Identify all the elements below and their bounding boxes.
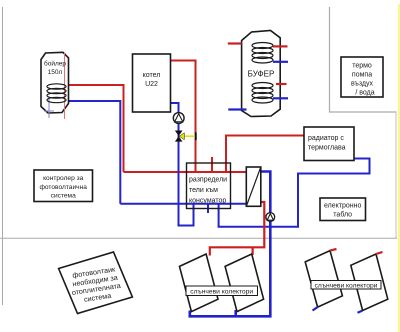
svg-text:помпа: помпа bbox=[352, 72, 372, 79]
svg-text:котел: котел bbox=[143, 72, 161, 79]
svg-text:слънчеви колектори: слънчеви колектори bbox=[190, 288, 253, 295]
label collectors right bbox=[311, 281, 381, 290]
wire blue boiler return bbox=[64, 101, 120, 204]
svg-text:слънчеви колектори: слънчеви колектори bbox=[315, 282, 378, 289]
buffer stub blue right2 bbox=[273, 97, 288, 99]
svg-text:контролер за: контролер за bbox=[43, 175, 84, 182]
wire red kotel supply bbox=[171, 61, 196, 173]
electric panel box bbox=[320, 198, 366, 221]
wire red solar return bbox=[210, 202, 264, 256]
svg-text:БУФЕР: БУФЕР bbox=[248, 70, 275, 79]
valve 3-way bbox=[175, 131, 196, 142]
buffer stub red right1 bbox=[273, 45, 288, 47]
svg-text:тели към: тели към bbox=[189, 187, 218, 194]
boiler coil bbox=[47, 84, 66, 103]
buffer stub blue left bbox=[228, 108, 246, 110]
buffer stub red right2 bbox=[276, 83, 287, 85]
svg-text:електронно: електронно bbox=[324, 203, 362, 210]
boiler tank bbox=[41, 52, 69, 119]
svg-text:система: система bbox=[51, 193, 76, 200]
svg-text:табло: табло bbox=[333, 211, 352, 219]
wire blue collector2 riser bbox=[234, 310, 237, 316]
svg-text:/ вода: / вода bbox=[355, 90, 374, 97]
gray building outline right bbox=[330, 7, 397, 112]
svg-text:термо: термо bbox=[352, 63, 372, 70]
collector 3 red stub bbox=[330, 249, 337, 251]
wire red boiler supply bbox=[64, 85, 124, 172]
svg-text:въздух: въздух bbox=[351, 81, 374, 88]
collector 3 blue stub bbox=[313, 307, 318, 310]
svg-text:150л: 150л bbox=[48, 69, 63, 76]
wire blue main to exchanger bbox=[120, 203, 246, 205]
pump P1 bbox=[173, 113, 184, 124]
buffer coil bottom bbox=[252, 83, 273, 104]
svg-text:бойлер: бойлер bbox=[44, 60, 66, 68]
pump P2 bbox=[266, 213, 275, 222]
collector 4 red stub bbox=[376, 252, 383, 254]
buffer stub blue right1 bbox=[273, 61, 288, 63]
buffer tank bbox=[242, 31, 281, 117]
collector 3 bbox=[305, 251, 342, 308]
collector 4 bbox=[351, 254, 388, 311]
collector 2 bbox=[225, 254, 264, 312]
wire blue radiator return bbox=[219, 159, 370, 227]
heat pump box bbox=[341, 57, 383, 97]
wire red collector2 drop bbox=[252, 247, 254, 255]
PV tilted box bbox=[59, 252, 133, 314]
svg-text:U22: U22 bbox=[145, 81, 158, 88]
svg-text:термоглава: термоглава bbox=[308, 145, 346, 152]
wire red radiator supply bbox=[226, 136, 304, 173]
svg-text:фотоволтаична: фотоволтаична bbox=[39, 184, 87, 191]
svg-text:консуматор: консуматор bbox=[189, 198, 226, 205]
wire blue manifold stub bbox=[207, 204, 209, 213]
collector 4 blue stub bbox=[358, 311, 363, 313]
wire blue kotel return bbox=[171, 103, 194, 226]
gray vertical right bbox=[395, 112, 397, 238]
kotel U22 box bbox=[133, 54, 171, 112]
svg-text:радиатор с: радиатор с bbox=[308, 135, 344, 142]
buffer stub red left bbox=[228, 42, 242, 44]
radiator box bbox=[304, 127, 354, 161]
wire red main to exchanger bbox=[124, 171, 247, 173]
manifold box bbox=[187, 163, 231, 209]
heat exchanger bbox=[246, 167, 260, 206]
wire red manifold stub bbox=[211, 157, 213, 172]
collector 1 bbox=[180, 254, 219, 312]
wire blue solar flow bbox=[190, 172, 270, 317]
gray floor line bbox=[0, 237, 397, 239]
svg-text:разпредели: разпредели bbox=[189, 177, 227, 184]
yellow border line bbox=[398, 4, 400, 332]
label collectors middle bbox=[186, 286, 258, 296]
controller box bbox=[34, 170, 93, 202]
buffer coil top bbox=[252, 43, 273, 64]
left margin gray line bbox=[2, 7, 4, 305]
